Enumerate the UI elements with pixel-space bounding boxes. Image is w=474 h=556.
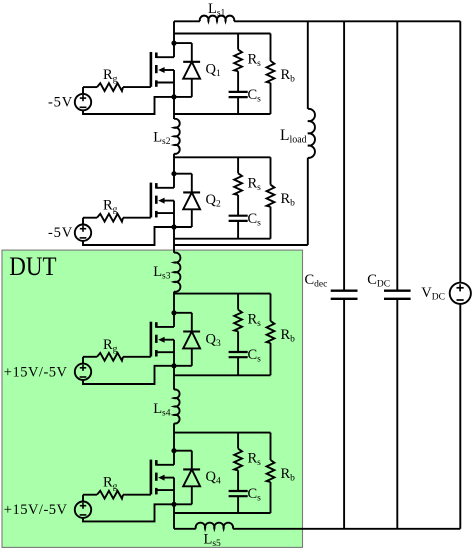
label Cs (Q3) (248, 347, 262, 365)
wire Q3 gate return (83, 366, 174, 384)
label Rb (Q4) (281, 466, 296, 484)
svg-text:-5V: -5V (48, 225, 73, 241)
node drain dot Q2 (171, 171, 176, 176)
capacitor CDC (384, 291, 411, 299)
wire top bus right (234, 20, 460, 22)
wire CDC upper (396, 21, 398, 290)
label CDC (367, 272, 390, 290)
label Q3 (206, 331, 221, 349)
label Cdec (305, 272, 328, 290)
DUT label (9, 251, 56, 281)
label Rb (Q1) (281, 67, 296, 85)
label Rg (Q1) (103, 67, 118, 85)
label Q1 (206, 62, 221, 80)
label Cs (Q2) (248, 211, 262, 229)
label gate supply Q1 (48, 95, 73, 111)
wire top bus left (174, 20, 200, 22)
wire chain Ls3 to Q3 (173, 292, 175, 313)
body diode of Q2 (174, 174, 200, 227)
svg-text:DUT: DUT (9, 251, 56, 281)
wire chain Ls2 to Q2 (173, 154, 175, 174)
inductor Ls5 (196, 523, 233, 529)
capacitor Cs (Q2 snubber) (229, 216, 248, 239)
resistor Rg (Q1 gate) (83, 83, 151, 94)
voltage source Q4 gate driver (75, 502, 91, 518)
DUT box (green highlight region) (2, 250, 303, 547)
resistor Rg (Q2 gate) (83, 214, 151, 225)
resistor Rb (Q2) (267, 157, 275, 238)
label gate supply Q4 (4, 502, 68, 518)
label Ls5 (204, 532, 222, 550)
capacitor Cs (Q1 snubber) (229, 92, 248, 114)
transistor Q2 (MOSFET) (151, 174, 174, 227)
label gate supply Q3 (4, 364, 68, 380)
resistor Rg (Q4 gate) (83, 491, 151, 502)
resistor Rg (Q3 gate) (83, 353, 151, 364)
inductor Ls1 (200, 16, 235, 22)
label VDC (421, 285, 445, 303)
wire Q2 gate return (83, 227, 174, 245)
transistor Q1 (MOSFET) (151, 43, 174, 97)
label Ls1 (208, 1, 226, 19)
capacitor Cs (Q4 snubber) (229, 491, 248, 513)
body diode of Q1 (174, 43, 200, 97)
voltage source Q1 gate driver (75, 94, 91, 110)
wire Q2 cell source rail (174, 238, 271, 240)
resistor Rb (Q4) (267, 433, 275, 513)
voltage source Q2 gate driver (75, 225, 91, 241)
label Lload (280, 127, 307, 146)
label Rg (Q2) (103, 198, 118, 216)
label Rs (Q4) (248, 451, 262, 469)
wire Cdec upper (343, 21, 345, 290)
wire chain Q3 to Ls4 (173, 366, 175, 390)
node source dot Q3 (171, 363, 176, 368)
label gate supply Q2 (48, 225, 73, 241)
inductor Ls4 (174, 390, 180, 424)
resistor Rs (Q2 snubber) (234, 157, 242, 215)
label Ls3 (153, 264, 171, 282)
inductor Ls3 (174, 253, 180, 292)
body diode of Q4 (174, 451, 200, 505)
label Ls2 (153, 130, 171, 148)
wire midpoint to load (174, 244, 308, 246)
node drain dot Q1 (171, 41, 176, 46)
label Ls4 (153, 401, 171, 419)
label Rb (Q2) (281, 191, 296, 209)
wire chain top (173, 21, 175, 43)
label Rg (Q4) (103, 475, 118, 493)
label Rb (Q3) (281, 327, 296, 345)
label Rs (Q1) (248, 52, 262, 70)
wire Cdec lower (343, 299, 345, 529)
resistor Rb (Q3) (267, 294, 275, 376)
capacitor Cs (Q3 snubber) (229, 352, 248, 375)
wire Q1 cell drain rail (174, 33, 271, 35)
wire load branch lower (307, 158, 309, 245)
label Rs (Q3) (248, 312, 262, 330)
wire chain Q4 to bottom bus (173, 504, 175, 529)
wire VDC lower (459, 304, 461, 529)
wire Q1 cell source rail (174, 113, 271, 115)
label Rg (Q3) (103, 337, 118, 355)
node source dot Q2 (171, 224, 176, 229)
wire bottom bus right (233, 528, 460, 530)
label Cs (Q1) (248, 87, 262, 105)
resistor Rs (Q1 snubber) (234, 34, 242, 92)
transistor Q3 (MOSFET) (151, 313, 174, 366)
wire bottom bus left (174, 528, 196, 530)
inductor Lload (308, 109, 315, 158)
wire chain Q1 to Ls2 (173, 97, 175, 119)
wire Q3 cell source rail (174, 374, 271, 376)
wire Q4 gate return (83, 504, 174, 521)
body diode of Q3 (174, 313, 200, 366)
wire chain Ls4 to Q4 (173, 423, 175, 450)
resistor Rb (Q1) (267, 34, 275, 115)
wire load branch upper (307, 21, 309, 109)
resistor Rs (Q4 snubber) (234, 433, 242, 491)
node drain dot Q4 (171, 448, 176, 453)
svg-text:+15V/-5V: +15V/-5V (4, 502, 68, 518)
svg-text:+15V/-5V: +15V/-5V (4, 364, 68, 380)
node source dot Q1 (171, 94, 176, 99)
wire Q1 gate return (83, 97, 174, 114)
label Q4 (206, 469, 221, 487)
wire Q4 cell drain rail (174, 432, 271, 434)
svg-text:-5V: -5V (48, 95, 73, 111)
capacitor Cdec (331, 291, 358, 299)
wire Q2 cell drain rail (174, 156, 271, 158)
inductor Ls2 (174, 119, 180, 154)
resistor Rs (Q3 snubber) (234, 294, 242, 352)
label Rs (Q2) (248, 175, 262, 193)
voltage source VDC (450, 283, 471, 304)
wire VDC upper (459, 21, 461, 282)
wire Q4 cell source rail (174, 512, 271, 514)
wire CDC lower (396, 299, 398, 529)
voltage source Q3 gate driver (75, 364, 91, 380)
wire Q3 cell drain rail (174, 293, 271, 295)
transistor Q4 (MOSFET) (151, 451, 174, 505)
label Cs (Q4) (248, 486, 262, 504)
node source dot Q4 (171, 502, 176, 507)
node drain dot Q3 (171, 310, 176, 315)
wire chain Q2 to Ls3 (173, 227, 175, 253)
label Q2 (206, 192, 221, 210)
